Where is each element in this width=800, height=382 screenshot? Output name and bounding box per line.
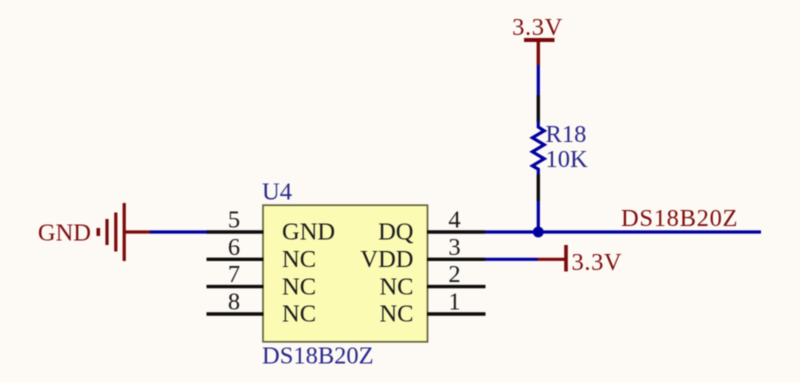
pin 8 NC (left row 4)	[207, 289, 317, 328]
pin 7 NC (left row 3)	[207, 261, 317, 300]
svg-text:1: 1	[448, 289, 460, 316]
svg-text:NC: NC	[282, 246, 316, 273]
svg-text:3.3V: 3.3V	[572, 249, 623, 276]
wire: 3.3V to resistor R18 pin 1	[537, 65, 540, 95]
wire: resistor to DQ net junction	[537, 201, 540, 232]
svg-text:10K: 10K	[546, 146, 589, 173]
svg-text:2: 2	[448, 261, 460, 288]
power port 3.3V (top, for R18)	[512, 14, 563, 65]
svg-text:5: 5	[228, 207, 240, 234]
wire: GND symbol to pin 5	[150, 230, 207, 233]
svg-text:U4: U4	[262, 178, 292, 205]
svg-text:R18: R18	[546, 121, 587, 148]
svg-text:NC: NC	[282, 273, 316, 300]
svg-text:GND: GND	[282, 219, 335, 246]
junction dot on DQ net	[533, 227, 544, 238]
wire: DQ net horizontal (pin 4 to right edge)	[485, 230, 762, 233]
IC U4 body	[263, 205, 428, 342]
pin 4 DQ (right row 1)	[378, 207, 485, 246]
pin 2 NC (right row 3)	[379, 261, 485, 300]
pin 1 NC (right row 4)	[379, 289, 485, 328]
svg-text:DS18B20Z: DS18B20Z	[621, 205, 738, 232]
pin 3 VDD (right row 2)	[360, 234, 485, 273]
svg-text:NC: NC	[379, 273, 413, 300]
power port 3.3V (at VDD pin)	[538, 245, 623, 276]
pin 5 GND (left row 1)	[207, 207, 336, 246]
wire: VDD pin 3 to 3.3V power port	[485, 258, 538, 261]
pin 6 NC (left row 2)	[207, 234, 317, 273]
svg-text:7: 7	[228, 261, 240, 288]
resistor R18 pin 2 (bottom lead)	[537, 175, 540, 202]
ground GND symbol	[38, 203, 150, 261]
svg-text:GND: GND	[38, 220, 91, 247]
svg-text:NC: NC	[379, 301, 413, 328]
resistor R18 pin 1 (top lead)	[537, 95, 540, 122]
svg-text:VDD: VDD	[360, 246, 413, 273]
svg-text:8: 8	[228, 289, 240, 316]
svg-text:3: 3	[448, 234, 460, 261]
svg-text:6: 6	[228, 234, 240, 261]
svg-text:DQ: DQ	[378, 219, 414, 246]
resistor R18 10K (zigzag body)	[532, 121, 588, 175]
svg-text:4: 4	[448, 207, 460, 234]
svg-text:3.3V: 3.3V	[512, 14, 563, 41]
svg-text:DS18B20Z: DS18B20Z	[262, 342, 374, 369]
svg-text:NC: NC	[282, 301, 316, 328]
